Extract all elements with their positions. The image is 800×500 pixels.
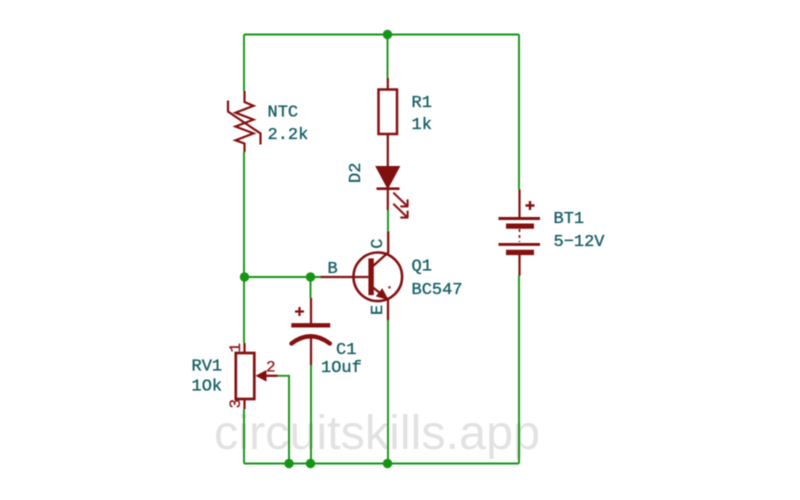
junction top rail / R1 — [383, 30, 392, 39]
wire emitter to bottom rail — [387, 320, 389, 464]
thermistor NTC — [228, 91, 261, 152]
wire left vertical middle (NTC to RV1) — [243, 152, 245, 343]
svg-text:5−12V: 5−12V — [554, 233, 606, 252]
svg-text:1Ok: 1Ok — [192, 378, 223, 397]
LED D2 — [376, 140, 408, 218]
wire bottom rail — [244, 463, 519, 465]
wire RV1 wiper to rail — [278, 376, 290, 464]
svg-text:C: C — [369, 239, 388, 249]
svg-text:1: 1 — [227, 343, 245, 353]
svg-text:RV1: RV1 — [192, 358, 223, 377]
svg-text:1Ouf: 1Ouf — [321, 359, 362, 378]
wire C1 bottom to rail — [310, 365, 312, 464]
junction bottom rail / C1 — [306, 459, 315, 468]
svg-text:D2: D2 — [347, 163, 366, 183]
wire C1 top branch — [310, 277, 312, 298]
svg-text:R1: R1 — [412, 94, 432, 113]
potentiometer RV1 — [236, 343, 278, 409]
label D2 — [347, 163, 366, 183]
pin number 3 — [227, 399, 245, 409]
pin label C — [369, 239, 388, 249]
svg-text:E: E — [369, 305, 388, 315]
svg-text:2.2k: 2.2k — [268, 126, 309, 145]
svg-text:NTC: NTC — [268, 104, 299, 123]
junction bottom rail / emitter — [383, 459, 392, 468]
label NTC value — [268, 104, 309, 146]
wire right vertical upper (top rail to battery) — [518, 35, 520, 190]
label Q1 — [412, 258, 463, 301]
capacitor C1 — [291, 298, 330, 365]
svg-text:B: B — [328, 260, 338, 279]
wire LED to transistor collector — [387, 210, 389, 232]
pin label E — [369, 305, 388, 315]
wire base branch horizontal — [244, 276, 321, 278]
pin label B — [328, 260, 338, 279]
pin number 2 — [266, 359, 276, 377]
watermark — [214, 406, 540, 460]
junction bottom rail / wiper — [284, 459, 293, 468]
wire left vertical upper (top rail to NTC) — [243, 35, 245, 92]
battery BT1 — [499, 190, 541, 276]
transistor Q1 — [321, 232, 403, 321]
svg-text:3: 3 — [227, 399, 245, 409]
wire right vertical lower (battery to bottom rail) — [518, 276, 520, 464]
svg-text:circuitskills.app: circuitskills.app — [214, 406, 540, 460]
label BT1 — [554, 210, 606, 252]
resistor R1 — [379, 78, 398, 140]
svg-text:C1: C1 — [336, 341, 356, 360]
wire top rail — [244, 34, 519, 36]
label C1 — [321, 341, 362, 378]
junction left vertical / base branch — [240, 272, 249, 281]
svg-text:1k: 1k — [412, 116, 432, 135]
wire left vertical lower (RV1 to bottom rail) — [243, 409, 245, 464]
svg-text:Q1: Q1 — [412, 258, 432, 277]
pin number 1 — [227, 343, 245, 353]
wire R1 top — [387, 35, 389, 79]
label R1 — [412, 94, 432, 135]
junction base branch / C1 — [306, 272, 315, 281]
label RV1 — [192, 358, 223, 397]
svg-text:BT1: BT1 — [554, 210, 585, 229]
svg-text:2: 2 — [266, 359, 276, 377]
svg-text:BC547: BC547 — [412, 281, 463, 300]
